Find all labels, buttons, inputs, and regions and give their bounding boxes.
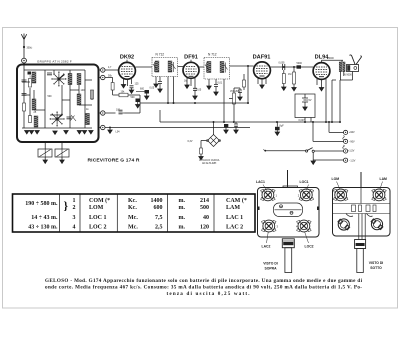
- svg-text:2: 2: [73, 205, 76, 211]
- resistor R6: [243, 80, 246, 87]
- capacitor C8: [193, 88, 197, 90]
- svg-text:0,01: 0,01: [218, 82, 223, 85]
- svg-text:LOC 1: LOC 1: [89, 215, 107, 221]
- svg-text:20000: 20000: [327, 57, 334, 60]
- wire IF1 to DF91: [178, 66, 184, 68]
- IF1 secondary trimmer: [172, 62, 176, 72]
- wire R4 to AVC: [125, 103, 141, 113]
- plate sopra top tab: [283, 186, 298, 188]
- volume potentiometer: [233, 93, 236, 104]
- svg-text:COM (*: COM (*: [89, 197, 110, 204]
- svg-text:LAC2: LAC2: [262, 245, 271, 249]
- coupling capacitor C11: [283, 64, 285, 70]
- svg-text:8μF: 8μF: [280, 125, 285, 128]
- gruppo terminal 2: [101, 75, 105, 79]
- svg-text:+90V: +90V: [349, 131, 355, 134]
- t4 feed and ground: [313, 152, 343, 161]
- capacitor C3: [67, 117, 72, 119]
- main bus (B-): [160, 121, 340, 123]
- rotary switch S1B: [51, 113, 63, 125]
- plate sotto: [333, 188, 391, 237]
- svg-text:SOPRA: SOPRA: [264, 267, 277, 271]
- wire IF2 to DAF91: [230, 65, 254, 67]
- gruppo ground 6: [89, 131, 93, 134]
- battery feed wires: [313, 122, 344, 141]
- wire IF1 down to AVC: [167, 77, 169, 104]
- svg-text:LOM: LOM: [332, 177, 340, 181]
- wire terminal3 to resistor: [105, 112, 116, 114]
- terminal stubs: [99, 70, 101, 128]
- svg-text:CAM (*: CAM (*: [226, 197, 247, 204]
- table: [13, 194, 256, 232]
- svg-text:RICEVITORE G 174 R: RICEVITORE G 174 R: [88, 158, 140, 164]
- wire IF1 sec down: [173, 77, 175, 104]
- svg-text:LAC 1: LAC 1: [226, 215, 243, 221]
- gruppo interior wires: [22, 63, 92, 128]
- trimmer T1: [71, 115, 77, 121]
- svg-text:LOC 2: LOC 2: [89, 225, 107, 231]
- sotto contact lugs: [352, 205, 356, 212]
- svg-text:125: 125: [135, 83, 140, 86]
- dial line left: [287, 170, 289, 188]
- sotto shaft: [357, 249, 364, 273]
- socket hole left: [338, 219, 350, 230]
- coil L7: [86, 114, 90, 125]
- svg-text:VOLUME: VOLUME: [230, 90, 241, 93]
- svg-text:1: 1: [73, 198, 76, 204]
- trimmer screw b: [290, 211, 293, 214]
- resistor R10: [23, 103, 26, 111]
- tube DK92: [119, 62, 136, 79]
- coil can LAM: [372, 189, 386, 201]
- svg-text:500: 500: [200, 205, 209, 211]
- capacitor C5: [158, 82, 162, 84]
- svg-text:m.: m.: [179, 205, 186, 211]
- coil L6: [77, 94, 81, 105]
- svg-text:N 712: N 712: [156, 52, 165, 56]
- trimmer screw a: [280, 205, 283, 208]
- svg-text:+1,5V: +1,5V: [348, 150, 355, 153]
- svg-text:GRUPPO AT N 2582 F: GRUPPO AT N 2582 F: [37, 60, 72, 64]
- resistor R11: [283, 70, 285, 87]
- DAF91 ground: [260, 85, 264, 88]
- output transformer secondary: [343, 62, 346, 72]
- svg-text:onde corte. Media frequenza 46: onde corte. Media frequenza 467 kc/s. Co…: [45, 285, 362, 291]
- svg-text:−90V: −90V: [349, 141, 355, 144]
- svg-text:1M: 1M: [288, 73, 291, 76]
- IF1 primary trimmer: [153, 62, 157, 72]
- svg-text:Mc.: Mc.: [128, 215, 138, 221]
- coil L4: [68, 74, 72, 85]
- rotary switch S1A: [53, 73, 65, 85]
- svg-text:0,05: 0,05: [197, 89, 202, 92]
- gruppo ground 5: [77, 131, 81, 134]
- IF1 primary coil: [155, 61, 159, 72]
- crystal earphone (diamond): [208, 135, 220, 147]
- tube DAF91: [254, 62, 271, 79]
- table column rules: [60, 194, 215, 232]
- svg-text:Mc.: Mc.: [128, 225, 138, 231]
- svg-text:N 712: N 712: [208, 52, 217, 56]
- sopra shaft collar: [282, 239, 294, 248]
- electrolytic C15: [275, 127, 280, 131]
- svg-text:−1,5V: −1,5V: [349, 160, 356, 163]
- pointer line LOC1: [307, 185, 309, 191]
- gruppo ground 1: [25, 131, 29, 134]
- svg-text:Kc.: Kc.: [128, 198, 137, 204]
- socket hole right: [371, 219, 383, 230]
- sotto centre line: [359, 188, 365, 240]
- wire to padder trimmers: [45, 142, 62, 149]
- gruppo terminal 1: [101, 68, 105, 72]
- sopra labels: [256, 180, 314, 271]
- DK92 cathode ground: [121, 85, 125, 88]
- IF2 primary trimmer: [205, 63, 209, 73]
- pointer line LAM: [380, 182, 383, 190]
- svg-text:0,005: 0,005: [279, 62, 286, 65]
- left coil plate (visto di sopra): [258, 170, 320, 273]
- gruppo ground 3: [53, 131, 57, 134]
- resistor R8: [201, 141, 207, 149]
- gruppo ground 0: [29, 131, 33, 134]
- table frame: [13, 194, 256, 232]
- wire terminal1 to DK92 grid: [105, 69, 119, 71]
- centre trimmer stadium: [274, 203, 303, 217]
- svg-text:GELOSO - Mod. G174 Apparecchio: GELOSO - Mod. G174 Apparecchio funzionan…: [45, 278, 363, 284]
- svg-text:190 ÷ 580 m.: 190 ÷ 580 m.: [25, 201, 58, 207]
- coil L3: [34, 116, 38, 127]
- capacitor C17: [22, 80, 27, 82]
- IF2 secondary coil: [220, 62, 224, 73]
- pointer line LOM: [337, 182, 341, 190]
- svg-text:5000: 5000: [297, 62, 303, 65]
- can numbers: [276, 194, 300, 229]
- svg-text:300Ω: 300Ω: [27, 47, 33, 50]
- svg-text:0,047: 0,047: [299, 119, 306, 122]
- svg-text:4,5V: 4,5V: [307, 99, 312, 102]
- DF91 pin drops: [187, 78, 195, 86]
- capacitor C14: [234, 124, 238, 126]
- coil can LOM: [333, 189, 347, 201]
- battery terminal 4: [344, 158, 348, 162]
- electrolytic C7 (dark): [136, 99, 141, 103]
- sotto shaft collar: [355, 240, 366, 249]
- battery terminal 1: [344, 130, 348, 134]
- svg-text:LOC2: LOC2: [305, 245, 314, 249]
- svg-text:SOTTO: SOTTO: [370, 266, 382, 270]
- gruppo interior wire row 2: [22, 80, 92, 115]
- DL94 pin drops: [317, 79, 326, 122]
- svg-text:Kc.: Kc.: [128, 205, 137, 211]
- wire IF2 down to bus: [223, 79, 225, 122]
- resistor R9 (50k): [111, 83, 114, 91]
- battery cell squiggle b: [343, 145, 345, 149]
- coil L5: [77, 74, 81, 85]
- svg-text:LAC1: LAC1: [256, 180, 265, 184]
- battery terminal 3: [344, 149, 348, 153]
- svg-text:6,3V: 6,3V: [188, 140, 193, 143]
- wire DK92 to IF1: [135, 66, 152, 68]
- battery terminal 2: [344, 139, 348, 143]
- wire DAF91 to DL94: [271, 66, 313, 68]
- gruppo AT box: [17, 65, 99, 143]
- sotto labels: [332, 177, 388, 270]
- svg-text:7,5: 7,5: [155, 215, 163, 221]
- electrolytic C6 (dark): [145, 90, 150, 94]
- svg-text:600: 600: [140, 87, 145, 90]
- svg-text:m.: m.: [179, 215, 186, 221]
- gruppo terminal 3: [101, 111, 105, 115]
- capacitor C1: [22, 94, 27, 96]
- right coil plate (visto di sotto): [333, 172, 391, 273]
- sotto middle band: [333, 204, 390, 214]
- grid return wire: [247, 66, 249, 103]
- coil can LOC1: [299, 189, 313, 201]
- svg-text:14 ÷ 43 m.: 14 ÷ 43 m.: [31, 215, 58, 221]
- capacitor C16 (100): [119, 110, 123, 114]
- padder trimmer P1: [38, 149, 52, 157]
- gruppo ground 4: [64, 131, 68, 134]
- svg-text:43 ÷ 130 m.: 43 ÷ 130 m.: [28, 225, 58, 231]
- svg-text:0,05: 0,05: [150, 87, 155, 90]
- wire hooks under band: [346, 214, 373, 217]
- resistor R3: [29, 116, 32, 123]
- svg-text:214: 214: [200, 198, 209, 204]
- svg-text:}: }: [64, 201, 69, 213]
- pointer line LAC1: [263, 185, 267, 191]
- DAF91 pin drops: [258, 78, 266, 85]
- svg-text:VISTO DI: VISTO DI: [263, 262, 278, 266]
- coil L1: [32, 72, 36, 83]
- svg-text:DAF91: DAF91: [253, 55, 271, 61]
- DF91 ground: [185, 85, 189, 88]
- electrolytic C13: [224, 124, 228, 127]
- IF1 secondary coil: [168, 61, 172, 72]
- svg-text:LOM: LOM: [89, 205, 104, 211]
- bus junction dots: [213, 121, 342, 123]
- IF2 ground: [207, 86, 211, 89]
- gruppo ground 2: [35, 131, 39, 134]
- svg-text:40: 40: [203, 215, 209, 221]
- dial line right: [360, 172, 362, 188]
- wire terminal2 drop: [105, 78, 113, 96]
- padder P2 ground: [61, 157, 63, 160]
- gruppo ground 0b: [82, 131, 86, 134]
- antenna: [21, 34, 26, 59]
- padder P1 ground: [44, 157, 46, 160]
- transformer bottom wires: [332, 72, 353, 123]
- svg-text:1400: 1400: [151, 198, 163, 204]
- svg-text:120: 120: [200, 225, 209, 231]
- capacitor C12 (dark): [297, 65, 302, 68]
- wire terminal4 long (osc line): [105, 127, 250, 129]
- svg-text:600: 600: [154, 205, 163, 211]
- svg-text:DK92: DK92: [120, 55, 134, 61]
- bottom caption text: [45, 278, 363, 297]
- padder trimmer P2: [55, 149, 69, 157]
- coil can LAC1: [261, 189, 275, 201]
- svg-text:VISTO DI: VISTO DI: [369, 261, 384, 265]
- svg-text:m.: m.: [179, 225, 186, 231]
- speaker: [347, 65, 359, 72]
- svg-text:m.: m.: [179, 198, 186, 204]
- IF2 secondary trimmer: [224, 63, 228, 73]
- IF2 pin drops: [209, 79, 216, 86]
- bias battery box: [295, 94, 315, 118]
- DL94 ground: [319, 88, 323, 91]
- resistor R7 (1M): [293, 72, 296, 84]
- capacitor C4 (125pF): [130, 86, 134, 88]
- tube DL94: [313, 63, 330, 80]
- plate sopra side notches: [258, 207, 260, 211]
- schematic text labels: [120, 55, 329, 61]
- IF transformer 2 box: [204, 58, 230, 80]
- svg-text:100: 100: [81, 89, 86, 92]
- svg-text:3: 3: [73, 215, 76, 221]
- svg-text:500: 500: [48, 95, 53, 98]
- antenna junction dot: [23, 46, 25, 48]
- coil can LAC2: [262, 220, 276, 232]
- capacitor C9: [214, 85, 218, 87]
- svg-text:500: 500: [131, 96, 136, 99]
- output transformer primary: [339, 62, 342, 72]
- svg-text:DF91: DF91: [184, 55, 198, 61]
- IF1 ground 1: [154, 84, 158, 87]
- gruppo terminal 4: [101, 125, 105, 129]
- tube DF91: [183, 62, 199, 78]
- electrolytic C18: [28, 72, 32, 75]
- svg-text:100: 100: [116, 109, 121, 112]
- svg-text:LAM: LAM: [226, 205, 240, 211]
- svg-text:LAC 2: LAC 2: [226, 225, 243, 231]
- IF1 pin drops: [156, 77, 160, 85]
- DK92 pin drops: [124, 79, 132, 86]
- plate sopra: [258, 188, 320, 238]
- antenna terminal circle: [22, 58, 27, 63]
- resistor R5 (10k): [119, 93, 128, 97]
- svg-text:L04: L04: [116, 131, 121, 134]
- resistor R2: [91, 90, 94, 99]
- filament switch: [266, 150, 306, 152]
- sopra shaft: [285, 248, 292, 273]
- coil L2: [32, 99, 36, 110]
- pointer line LOC2: [305, 232, 309, 244]
- battery cell squiggle a: [343, 136, 345, 140]
- capacitor C2: [47, 73, 52, 75]
- wire DF91 to IF2: [199, 66, 204, 68]
- ground on osc line: [109, 128, 111, 131]
- coil can LOC2: [297, 220, 311, 232]
- svg-text:N 9000: N 9000: [344, 74, 352, 77]
- svg-text:LAM: LAM: [380, 177, 388, 181]
- svg-text:AD ALTA IMP.: AD ALTA IMP.: [202, 162, 217, 165]
- capacitor C10: [238, 90, 242, 92]
- svg-text:2,5: 2,5: [155, 225, 163, 231]
- AVC wire: [140, 102, 248, 104]
- svg-text:4: 4: [73, 225, 76, 231]
- svg-text:LOC1: LOC1: [300, 180, 309, 184]
- IF transformer 1 box: [152, 58, 178, 77]
- pointer line LAC2: [267, 232, 269, 244]
- IF2 primary coil: [207, 62, 211, 73]
- R7 ground: [292, 88, 296, 91]
- resistor R1: [29, 79, 32, 88]
